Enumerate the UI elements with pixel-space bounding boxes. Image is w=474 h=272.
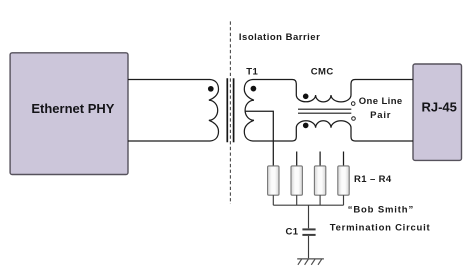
svg-text:RJ-45: RJ-45	[421, 99, 456, 114]
svg-text:C1: C1	[286, 227, 299, 238]
svg-text:R1 – R4: R1 – R4	[354, 174, 392, 185]
svg-text:CMC: CMC	[311, 66, 334, 77]
svg-text:Ethernet PHY: Ethernet PHY	[31, 101, 114, 116]
svg-text:Pair: Pair	[370, 110, 391, 121]
svg-text:One Line: One Line	[359, 96, 403, 107]
svg-text:“Bob Smith”: “Bob Smith”	[348, 205, 414, 216]
svg-text:Isolation Barrier: Isolation Barrier	[239, 32, 320, 43]
svg-text:T1: T1	[246, 66, 258, 77]
svg-text:Termination Circuit: Termination Circuit	[330, 223, 431, 234]
